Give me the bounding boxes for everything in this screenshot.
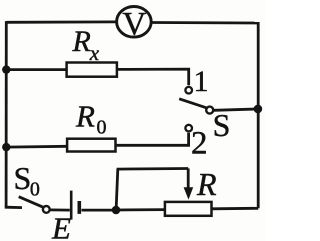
wire rheostat R box to right rail	[212, 207, 259, 210]
battery E long plate	[70, 191, 73, 220]
svg-text:E: E	[51, 211, 71, 241]
switch S0 pivot circle	[43, 206, 50, 213]
svg-text:R: R	[75, 99, 95, 134]
resistor Rx box	[67, 63, 117, 77]
svg-text:R: R	[196, 166, 217, 202]
svg-text:1: 1	[194, 65, 209, 98]
wire battery to junction	[82, 209, 117, 212]
wire left vertical	[5, 21, 8, 207]
wire rheostat riser vertical	[116, 169, 118, 210]
wire S0 pivot to battery	[50, 208, 70, 211]
wire rheostat branch top horizontal	[117, 167, 189, 170]
svg-text:R: R	[72, 25, 91, 58]
junction node R0-left	[2, 143, 10, 151]
svg-text:S: S	[213, 107, 231, 143]
switch S lever	[179, 99, 206, 108]
resistor R0 box	[67, 139, 115, 152]
svg-text:2: 2	[191, 125, 208, 161]
switch S pivot circle	[206, 107, 213, 114]
svg-text:x: x	[89, 41, 100, 65]
junction node S-right rail	[254, 105, 263, 114]
switch S0 lever	[19, 197, 44, 208]
wire Rx row right to contact 1	[117, 69, 189, 85]
switch S contact 1 circle	[185, 87, 192, 94]
wire Rx row left	[6, 68, 66, 71]
wire right vertical	[257, 22, 260, 208]
rheostat wiper arrow shaft	[187, 168, 190, 188]
switch S contact 2 circle	[185, 125, 192, 132]
junction node Rx-left	[2, 65, 10, 73]
rheostat wiper arrowhead	[184, 187, 194, 199]
wire R0 row left	[6, 145, 67, 149]
svg-text:0: 0	[97, 117, 107, 139]
wire top-right horizontal	[152, 21, 258, 24]
svg-text:0: 0	[30, 179, 40, 201]
wire junction to rheostat R box	[116, 208, 165, 211]
wire switch S pivot to right rail	[214, 109, 258, 110]
wire R0 row right to contact 2	[116, 133, 189, 146]
svg-text:V: V	[122, 6, 146, 42]
voltmeter V1 circle	[117, 6, 152, 37]
battery E short plate	[78, 201, 82, 214]
wire top-left horizontal	[6, 20, 115, 23]
rheostat R box	[165, 202, 212, 216]
wire bottom-left stub	[6, 206, 22, 207]
junction node battery-riser	[112, 206, 121, 215]
svg-text:S: S	[14, 160, 32, 196]
